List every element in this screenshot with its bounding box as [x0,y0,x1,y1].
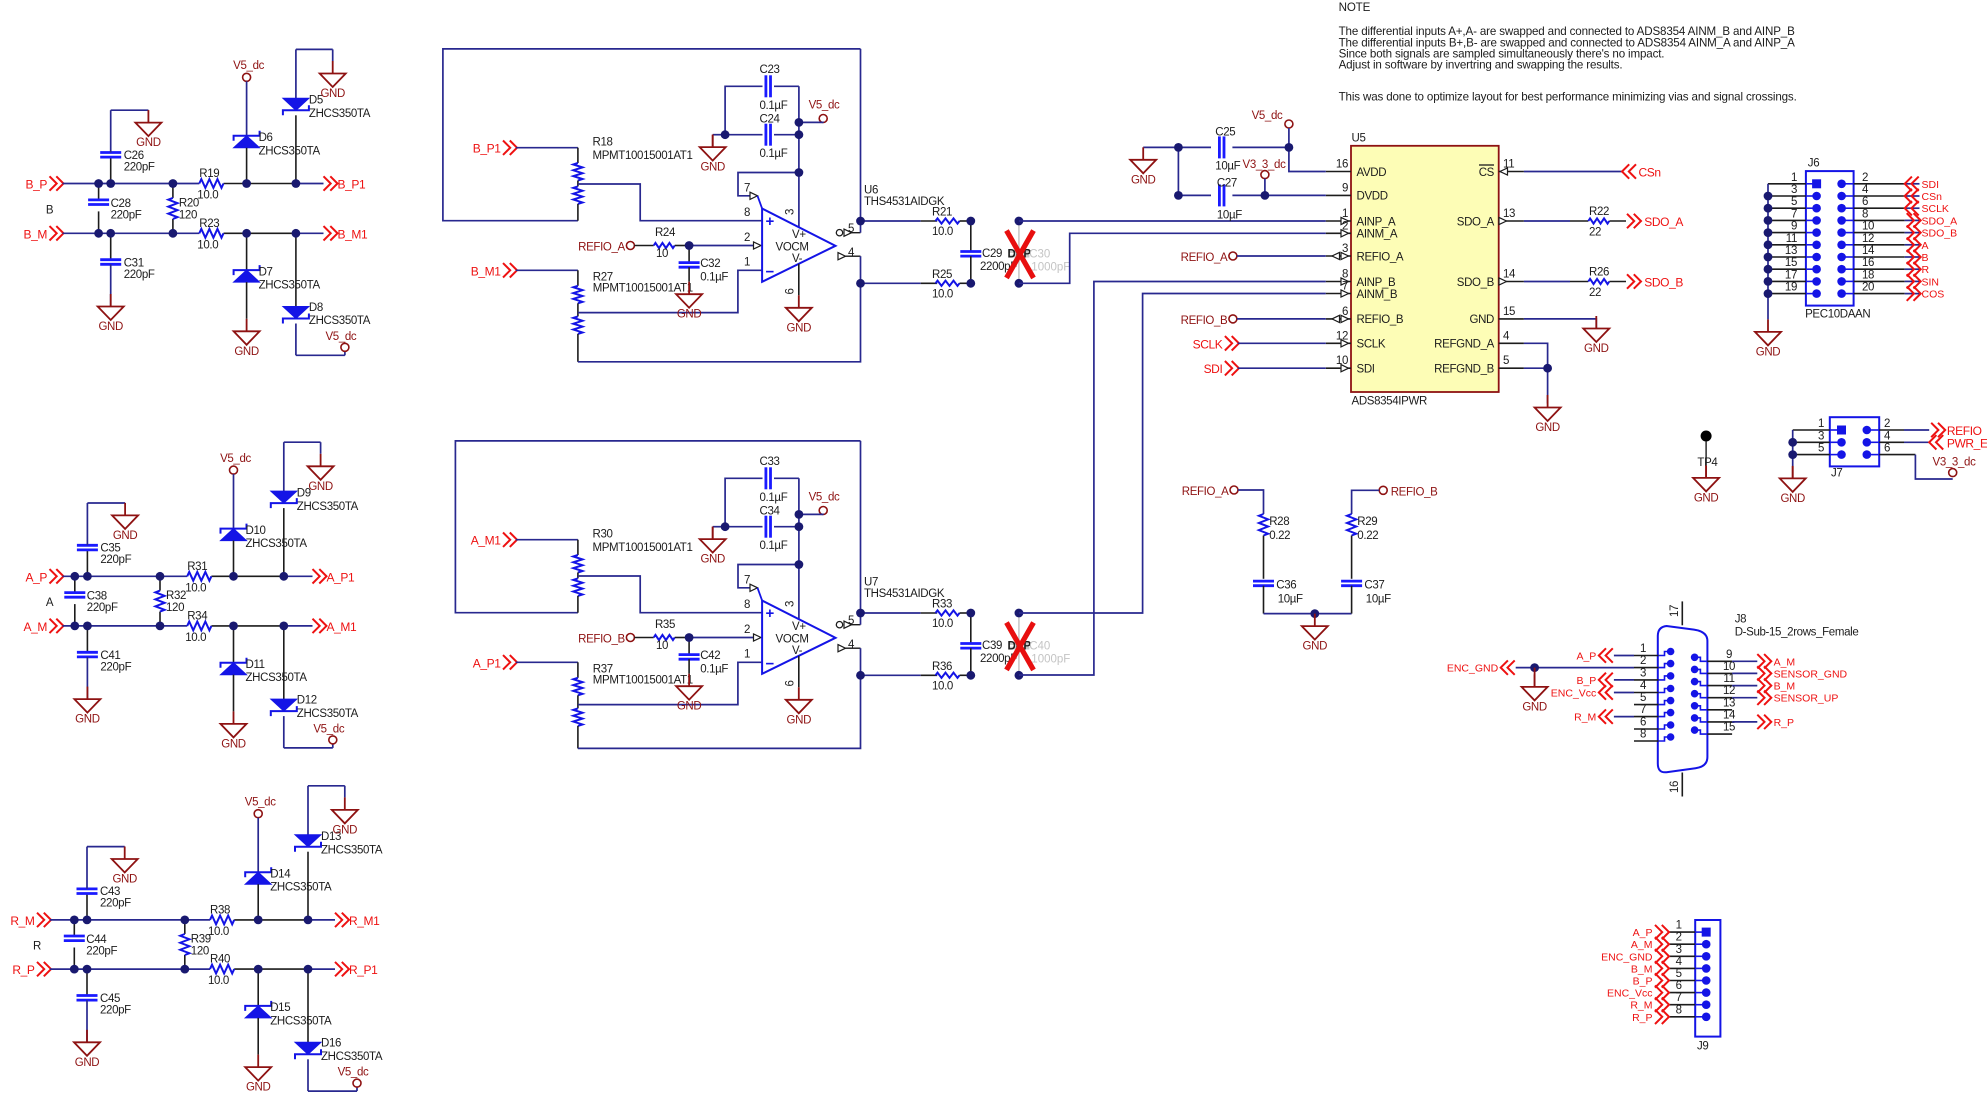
wire pin7 loop [738,173,799,209]
svg-text:GND: GND [1780,493,1805,505]
port REFIO_A [578,242,634,254]
pin 13 J6 [1768,245,1821,261]
svg-text:ZHCS350TA: ZHCS350TA [246,538,308,550]
pin 13 J8 [1691,697,1735,710]
svg-text:GND: GND [787,322,812,334]
wire A_P1 to divider [516,661,578,663]
pin 17 J8 [1669,601,1682,625]
svg-text:D14: D14 [270,868,291,880]
svg-text:This was done to optimize layo: This was done to optimize layout for bes… [1339,91,1797,104]
ground C45 [74,1030,100,1069]
resistor R36 [861,661,971,693]
svg-text:0.1µF: 0.1µF [760,148,788,160]
svg-text:B_M1: B_M1 [471,264,501,278]
svg-text:220pF: 220pF [100,661,131,673]
power V5_dc [220,453,251,474]
svg-text:A_P: A_P [1633,927,1653,939]
resistor R32 [155,576,186,626]
svg-text:12: 12 [1862,233,1874,245]
pin 2 AINM_A [1326,220,1398,240]
ground D15 [245,1055,271,1093]
svg-text:120: 120 [166,602,184,614]
resistor R33 [861,599,971,631]
svg-text:10µF: 10µF [1217,210,1242,222]
svg-text:13: 13 [1503,208,1515,220]
port A_P input [26,569,64,584]
resistor R35 [634,619,689,652]
svg-text:−: − [766,656,775,673]
svg-text:1000pF: 1000pF [1031,654,1070,666]
svg-text:C34: C34 [760,506,781,518]
wire pin4 out [838,253,861,284]
resistor R30 [573,529,692,613]
svg-text:D12: D12 [297,695,317,707]
svg-text:B_P1: B_P1 [338,178,366,192]
svg-text:22: 22 [1589,287,1601,299]
pin 15 J6 [1768,257,1821,273]
svg-text:GND: GND [98,321,123,333]
svg-text:16: 16 [1336,159,1348,171]
svg-text:V5_dc: V5_dc [338,1067,369,1079]
pin 8 AINP_B [1326,269,1396,289]
svg-text:220pF: 220pF [124,161,155,173]
wire R_P row [50,968,335,970]
svg-text:R24: R24 [655,227,676,239]
svg-text:ZHCS350TA: ZHCS350TA [321,844,383,856]
svg-text:V+: V+ [792,229,806,241]
pin 3 REFIO_A [1326,243,1404,263]
svg-text:C35: C35 [100,543,120,555]
pin 7 J6 [1768,208,1821,224]
ground C41 [74,687,100,726]
svg-text:A_P: A_P [1576,651,1596,663]
port REFIO J7 [1879,423,1981,438]
svg-text:ZHCS350TA: ZHCS350TA [321,1051,383,1063]
svg-text:DVDD: DVDD [1357,191,1388,203]
svg-text:GND: GND [320,88,345,100]
svg-text:6: 6 [1640,717,1646,729]
svg-text:REFIO_B: REFIO_B [1391,486,1438,498]
svg-text:ENC_GND: ENC_GND [1447,663,1499,675]
testpoint TP4 [1697,431,1718,478]
svg-text:A_P1: A_P1 [473,656,501,670]
svg-text:V5_dc: V5_dc [809,492,840,504]
svg-text:C32: C32 [700,258,720,270]
pin 4 REFGND_A [1434,330,1524,350]
svg-text:5: 5 [1503,355,1509,367]
svg-text:R19: R19 [199,168,219,180]
svg-text:7: 7 [1640,704,1646,716]
svg-text:10: 10 [656,248,668,260]
diode D6 [234,131,321,184]
svg-text:5: 5 [1791,196,1797,208]
pin 14 J6 B [1837,245,1928,264]
wire feedback bottom [578,283,861,362]
resistor R18 [573,137,692,221]
port ENC_Vcc J8 [1551,685,1634,699]
pin 10 J6 SDO_B [1837,221,1957,240]
resistor R39 [180,920,211,969]
svg-text:15: 15 [1503,306,1515,318]
pin 16 J8 [1669,773,1682,797]
svg-text:10µF: 10µF [1366,594,1391,606]
svg-text:C24: C24 [760,114,781,126]
svg-text:4: 4 [1503,330,1510,342]
resistor R38 [208,904,234,938]
pin 15 GND [1469,306,1523,326]
svg-text:REFIO_A: REFIO_A [1357,251,1404,263]
wire B_M1 to divider [516,269,578,271]
svg-text:220pF: 220pF [100,554,131,566]
wire V5 to diode [233,474,235,528]
port R_P J8 [1732,715,1794,729]
svg-text:0.1µF: 0.1µF [760,492,788,504]
resistor R29 [1347,514,1378,579]
svg-text:0.1µF: 0.1µF [700,663,728,675]
svg-text:4: 4 [848,639,855,651]
svg-text:AINP_A: AINP_A [1357,216,1396,228]
svg-text:REFGND_A: REFGND_A [1434,339,1495,351]
svg-text:AINM_B: AINM_B [1357,289,1398,301]
svg-text:V5_dc: V5_dc [809,100,840,112]
svg-text:R18: R18 [593,137,613,149]
svg-text:J6: J6 [1808,158,1819,170]
svg-text:REFIO_A: REFIO_A [578,242,625,254]
svg-text:D8: D8 [309,302,323,314]
connector J7 [1830,417,1879,479]
svg-text:14: 14 [1503,269,1516,281]
pin 3 J7 [1793,430,1846,446]
svg-text:B_M1: B_M1 [338,227,368,241]
diode D7 [234,233,321,318]
diode D16 [295,969,383,1091]
svg-text:R32: R32 [166,590,186,602]
ground C26 [135,110,161,149]
ground adc gnd pin [1583,316,1609,355]
svg-text:V5_dc: V5_dc [313,723,344,735]
capacitor C37 [1341,579,1391,613]
svg-text:+: + [766,605,775,622]
port A_M J8 [1732,654,1795,668]
ground opamp V- [786,687,812,726]
port REFIO_A adc [1181,252,1326,264]
svg-text:V5_dc: V5_dc [220,453,251,465]
svg-text:V3_3_dc: V3_3_dc [1243,159,1287,171]
pin 5 J6 [1768,196,1821,212]
svg-text:A_M1: A_M1 [327,620,357,634]
svg-text:10.0: 10.0 [932,680,953,692]
svg-text:SDO_B: SDO_B [1457,277,1495,289]
wire out+ to vertical [860,441,862,613]
svg-text:GND: GND [221,738,246,750]
svg-text:A: A [1922,240,1929,252]
power V5_dc [325,331,356,356]
pin 2 J9 A_M [1631,932,1711,952]
port B_P1 [473,141,517,156]
svg-text:A: A [46,597,54,609]
svg-text:B_P: B_P [1576,675,1596,687]
diode D5 [283,49,371,183]
node A label [46,597,54,609]
svg-text:5: 5 [1640,692,1646,704]
svg-text:V-: V- [792,253,803,265]
svg-text:GND: GND [1694,492,1719,504]
wire V5 to diode [246,81,248,136]
svg-text:220pF: 220pF [86,946,117,958]
svg-text:220pF: 220pF [124,269,155,281]
power V3_3_dc J7 [1879,455,1976,479]
connector J9 [1695,920,1720,1053]
wire V+ rail [798,478,800,619]
wire AVDD [1289,147,1326,171]
svg-text:C44: C44 [86,934,107,946]
svg-text:Adjust in software by invertri: Adjust in software by invertring and swa… [1339,59,1623,72]
wire J6 gnd bus [1764,184,1773,320]
svg-text:R31: R31 [187,561,207,573]
op-amp U6 [744,183,945,295]
diode D15 [245,969,332,1055]
svg-text:10.0: 10.0 [208,975,229,987]
svg-text:C41: C41 [100,650,120,662]
wire refio filter gnd [1264,609,1352,618]
svg-text:220pF: 220pF [100,1005,131,1017]
svg-text:B_M: B_M [1631,963,1653,975]
pin 15 J8 [1691,722,1735,735]
svg-text:18: 18 [1862,269,1874,281]
svg-text:C43: C43 [100,886,120,898]
svg-text:GND: GND [787,714,812,726]
resistor R26 [1524,267,1626,300]
port B_P J8 [1576,673,1634,687]
svg-text:R25: R25 [932,269,952,281]
svg-text:4: 4 [848,247,855,259]
svg-text:PWR_EN: PWR_EN [1947,436,1987,450]
svg-text:6: 6 [785,289,797,295]
capacitor C28 98.6 [88,184,142,234]
capacitor C33 [725,456,799,527]
svg-text:D10: D10 [246,525,266,537]
resistor R22 [1524,206,1626,239]
svg-text:15: 15 [1723,722,1735,734]
svg-text:17: 17 [1669,605,1681,617]
port B_M J8 [1732,678,1795,692]
svg-text:REFIO_B: REFIO_B [1357,314,1404,326]
svg-text:GND: GND [1584,343,1609,355]
capacitor C36 [1253,579,1303,613]
svg-text:GND: GND [1303,641,1328,653]
pin 17 J6 [1768,269,1821,285]
port PWR_EN J7 [1879,435,1987,450]
pin 4 J7 [1863,430,1892,446]
svg-text:1: 1 [744,649,750,661]
wire tap to pin8 [578,184,762,221]
svg-text:R_M: R_M [1630,1000,1652,1012]
svg-text:ZHCS350TA: ZHCS350TA [309,315,371,327]
wire U6 feedback top [443,49,861,221]
wire A_M row [63,625,313,627]
pin 14 J8 [1691,709,1736,722]
pin 12 SCLK [1326,330,1386,350]
diode D14 [245,867,332,920]
power V5_dc adc [1252,110,1293,147]
svg-text:ENC_Vcc: ENC_Vcc [1607,988,1653,1000]
ground J7 [1780,466,1806,505]
wire AINM_A net [1019,233,1326,283]
pin 3 J9 ENC_GND [1601,944,1710,964]
svg-text:10: 10 [656,640,668,652]
wire feedback bottom [578,675,861,748]
connector J6 PEC10DAAN [1805,158,1870,321]
svg-text:MPMT10015001AT1: MPMT10015001AT1 [593,542,693,554]
svg-text:AINM_A: AINM_A [1357,229,1398,241]
svg-text:12: 12 [1723,685,1735,697]
svg-text:6: 6 [785,681,797,687]
svg-text:R_M: R_M [1574,712,1596,724]
svg-text:V-: V- [792,645,803,657]
wire pin4 out [838,645,861,676]
pin 7 AINM_B [1326,281,1398,301]
svg-text:SDO_A: SDO_A [1457,216,1495,228]
svg-text:SDI: SDI [1204,362,1223,376]
IC U5 ADS8354IPWR [1351,133,1499,408]
pin 2 J6 SDI [1837,172,1939,191]
svg-text:SCLK: SCLK [1922,203,1949,215]
wire AINM_B net [1019,294,1326,614]
svg-text:10.0: 10.0 [185,632,206,644]
pin 6 J6 SCLK [1837,196,1949,215]
svg-text:R30: R30 [593,529,613,541]
wire cap gnd [713,135,725,147]
svg-text:6: 6 [1884,443,1890,455]
port R_P input [12,962,51,977]
svg-text:R22: R22 [1589,206,1609,218]
svg-text:ZHCS350TA: ZHCS350TA [297,501,359,513]
svg-text:GND: GND [136,137,161,149]
pin 9 J8 [1691,649,1732,662]
svg-text:SCLK: SCLK [1357,339,1386,351]
wire cap join [1143,147,1178,195]
capacitor C43 [77,847,132,920]
wire AINP_A net [1019,220,1326,222]
connector J8 D-Sub-15 [1658,614,1859,773]
svg-text:10.0: 10.0 [932,226,953,238]
svg-text:GND: GND [1756,346,1781,358]
svg-text:J8: J8 [1735,614,1746,626]
capacitor C38 74.8 [64,576,118,626]
svg-text:V5_dc: V5_dc [1252,110,1283,122]
svg-text:6: 6 [1676,980,1682,992]
capacitor C42 [679,638,729,676]
wire B_P row [63,183,324,185]
pin 11 CS [1479,159,1524,179]
svg-text:6: 6 [1862,196,1868,208]
power V5_dc [245,796,276,817]
svg-text:1: 1 [1818,418,1824,430]
pin 5 REFGND_B [1434,355,1524,375]
svg-text:ZHCS350TA: ZHCS350TA [259,145,321,157]
svg-text:R35: R35 [655,619,675,631]
pin 1 J8 [1634,643,1674,656]
svg-text:8: 8 [1676,1004,1682,1016]
svg-text:R: R [33,941,41,953]
svg-text:C25: C25 [1215,127,1235,139]
svg-text:15: 15 [1785,257,1797,269]
wire V+ rail [798,86,800,227]
svg-text:R34: R34 [187,610,208,622]
svg-text:A_M1: A_M1 [471,534,501,548]
capacitor C23 [725,64,799,135]
svg-text:COS: COS [1922,289,1945,301]
wire V- pin [798,264,800,296]
node R label [33,941,41,953]
svg-text:C31: C31 [124,257,144,269]
svg-text:R21: R21 [932,207,952,219]
port R_M J8 [1574,709,1634,723]
capacitor C39 [960,613,1017,675]
capacitor C32 [679,246,729,284]
svg-text:22: 22 [1589,227,1601,239]
pin 16 AVDD [1326,159,1386,179]
ground refio filter [1302,614,1328,653]
diode D13 [295,786,383,920]
svg-text:10.0: 10.0 [208,926,229,938]
svg-text:VOCM: VOCM [776,241,809,253]
svg-text:C40: C40 [1029,641,1050,653]
svg-text:13: 13 [1723,697,1735,709]
pin 1 J9 A_P [1633,920,1711,940]
svg-text:16: 16 [1862,257,1874,269]
svg-text:ZHCS350TA: ZHCS350TA [246,672,308,684]
svg-text:D15: D15 [270,1002,290,1014]
svg-text:C26: C26 [124,150,144,162]
svg-text:GND: GND [234,346,259,358]
svg-text:ZHCS350TA: ZHCS350TA [297,708,359,720]
svg-text:A_M: A_M [1774,656,1796,668]
port A_P1 [473,655,517,670]
svg-text:V+: V+ [792,621,806,633]
svg-text:D6: D6 [259,132,273,144]
pin 16 J6 R [1837,257,1929,276]
pin 19 J6 [1768,282,1821,298]
svg-text:GND: GND [75,714,100,726]
wire vocm [689,242,761,249]
svg-text:R_M1: R_M1 [349,914,380,928]
svg-text:C39: C39 [982,640,1002,652]
ground D9 [320,442,322,454]
svg-text:V5_dc: V5_dc [245,796,276,808]
svg-text:B_P: B_P [26,178,48,192]
ground J6 [1755,319,1781,358]
pin 1 J6 [1768,172,1821,189]
power V5_dc [313,723,344,748]
svg-text:GND: GND [1535,422,1560,434]
svg-text:U7: U7 [864,577,878,589]
svg-text:GND: GND [677,309,702,321]
svg-text:SDO_A: SDO_A [1922,215,1958,227]
port REFIO_A filter [1182,486,1264,514]
svg-text:9: 9 [1342,182,1348,194]
wire U7 feedback top [455,441,860,613]
port ENC_GND J8 [1447,660,1634,687]
svg-text:REFIO_B: REFIO_B [1181,315,1228,327]
svg-text:10.0: 10.0 [932,288,953,300]
svg-text:−: − [766,264,775,281]
svg-text:R38: R38 [210,904,230,916]
svg-text:REFIO_A: REFIO_A [1181,252,1228,264]
ground caps [700,135,726,174]
svg-text:9: 9 [1791,221,1797,233]
svg-text:MPMT10015001AT1: MPMT10015001AT1 [593,674,693,686]
